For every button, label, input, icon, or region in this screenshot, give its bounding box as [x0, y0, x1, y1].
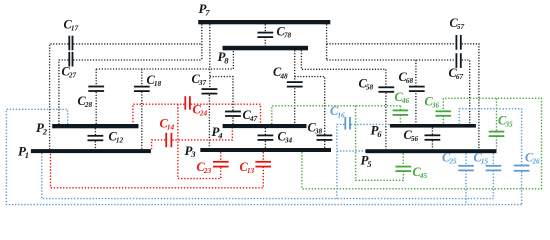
- capacitor C16: [344, 117, 351, 130]
- label P2: [36, 120, 48, 136]
- wire P2 branch down to C23 bottom: [178, 104, 221, 178]
- svg-text:P4: P4: [212, 124, 224, 140]
- wire C56 bottom: [431, 141, 433, 150]
- svg-text:C26: C26: [525, 150, 540, 165]
- label C17: [64, 18, 79, 33]
- label C26: [525, 150, 540, 165]
- BLUE WIRES: [6, 109, 521, 205]
- label C15: [474, 150, 489, 165]
- svg-text:P7: P7: [199, 1, 211, 17]
- wire C57 left line: [327, 43, 456, 45]
- capacitor C13: [255, 161, 271, 168]
- label C12: [109, 130, 124, 145]
- wire C16 left down to P1 line: [337, 124, 345, 198]
- wire C78 top: [264, 24, 266, 33]
- wire C12 bottom: [94, 141, 96, 149]
- label C23: [197, 160, 212, 175]
- capacitor C46: [393, 110, 409, 116]
- svg-text:C58: C58: [359, 77, 374, 92]
- plate P3: [200, 148, 331, 152]
- label C28: [78, 94, 93, 109]
- svg-text:C14: C14: [160, 117, 175, 132]
- label P1: [18, 144, 29, 160]
- label C14: [160, 117, 175, 132]
- svg-text:C38: C38: [308, 121, 323, 136]
- capacitor C67: [456, 53, 462, 68]
- wire C38 top route to C48 line: [295, 77, 325, 137]
- label C67: [449, 66, 464, 81]
- plate P5: [366, 149, 497, 153]
- label C38: [308, 121, 323, 136]
- capacitor C56: [425, 134, 441, 140]
- capacitor C57: [456, 35, 462, 50]
- capacitor C23: [213, 161, 229, 168]
- svg-text:C68: C68: [399, 70, 414, 85]
- wire C36 bottom to P6: [442, 116, 444, 124]
- wire P3 bottom to green box: [302, 98, 542, 189]
- label C18: [147, 73, 162, 88]
- svg-text:C56: C56: [404, 128, 419, 143]
- capacitor C25: [458, 165, 474, 171]
- svg-text:C13: C13: [240, 160, 255, 175]
- svg-text:C17: C17: [64, 18, 79, 33]
- wire C78 bottom: [264, 37, 266, 46]
- wire C46 top: [399, 106, 401, 111]
- wire C16 right to P6: [351, 123, 390, 125]
- capacitor C24: [184, 96, 190, 110]
- wire C17 right to P7 drop: [73, 43, 202, 45]
- wire C36 top: [442, 98, 444, 111]
- wire C37 bottom to P3: [208, 95, 210, 148]
- label C48: [273, 65, 288, 80]
- wire C68 bottom to P6: [415, 93, 417, 124]
- capacitor C47: [225, 111, 241, 117]
- svg-text:C37: C37: [192, 72, 207, 87]
- wire C24 left to P2: [133, 104, 185, 124]
- capacitor C27: [68, 52, 73, 67]
- capacitor C28: [88, 86, 104, 92]
- wire C24 right to P4: [191, 104, 261, 124]
- svg-text:C24: C24: [193, 103, 208, 118]
- wire C47 bottom to P4: [232, 118, 234, 125]
- wire C48 top to P8: [294, 50, 296, 83]
- label C13: [240, 160, 255, 175]
- label C45: [413, 165, 428, 180]
- label P8: [218, 49, 230, 65]
- wire C34 bottom: [264, 141, 266, 148]
- wire C15 top: [492, 153, 494, 166]
- capacitor C58: [378, 86, 394, 92]
- wire P2 top to blue ring: [6, 109, 521, 204]
- label P3: [185, 143, 197, 159]
- capacitor C26: [514, 165, 530, 172]
- label C57: [450, 16, 465, 31]
- plate P7: [198, 20, 330, 24]
- label C47: [243, 108, 258, 123]
- wire C13 bottom to P1: [51, 153, 264, 188]
- wire P7 stub down to C17/C27 lines: [201, 24, 203, 60]
- label C24: [193, 103, 208, 118]
- wire C18 bottom to P1: [141, 92, 143, 150]
- wire P4 net down to C45: [356, 106, 404, 181]
- label P6: [371, 122, 383, 138]
- label P5: [361, 153, 373, 169]
- svg-text:P5: P5: [361, 153, 373, 169]
- plate P6: [390, 124, 476, 128]
- svg-text:C18: C18: [147, 73, 162, 88]
- svg-text:C12: C12: [109, 130, 124, 145]
- wire C35 top: [496, 98, 498, 131]
- capacitor C18: [134, 86, 150, 92]
- svg-text:P2: P2: [36, 120, 48, 136]
- wire P7 down to C37: [209, 24, 211, 90]
- wire C14 left to P1: [152, 140, 166, 149]
- label C16: [330, 104, 345, 119]
- wire P7 right drop to C57/C67 lines: [326, 24, 328, 60]
- capacitor C48: [287, 81, 303, 87]
- plate P1: [31, 149, 151, 153]
- svg-text:C48: C48: [273, 65, 288, 80]
- label C25: [442, 150, 457, 165]
- wire branch to C47 top: [210, 77, 233, 113]
- svg-text:C57: C57: [450, 16, 465, 31]
- wire C26 top to P6: [459, 109, 521, 166]
- capacitor C35: [489, 131, 505, 137]
- wire C26 bottom to P2 line: [521, 172, 523, 205]
- wire P8 horizontal net y69: [96, 50, 233, 69]
- svg-text:C28: C28: [78, 94, 93, 109]
- label C58: [359, 77, 374, 92]
- wire C28 top: [95, 69, 97, 87]
- wire C28 bottom to P2: [95, 92, 97, 124]
- wire C58 bottom to P5: [385, 93, 387, 150]
- label C27: [62, 65, 77, 80]
- wire C35 bottom to P5: [496, 136, 498, 149]
- svg-text:C27: C27: [62, 65, 77, 80]
- wire C18 top: [141, 69, 143, 88]
- label C34: [278, 130, 293, 145]
- wire P8 to C58 top: [301, 50, 386, 88]
- svg-text:C45: C45: [413, 165, 428, 180]
- wire C38 bottom to P3: [324, 141, 326, 148]
- wire C13 top to P3: [262, 152, 264, 162]
- wire C68 top: [415, 60, 417, 88]
- wire C23 top to P3: [220, 152, 222, 162]
- plate P8: [223, 46, 309, 51]
- label C37: [192, 72, 207, 87]
- capacitor C14: [165, 133, 172, 147]
- capacitor C34: [258, 135, 274, 141]
- GREEN WIRES: [272, 98, 542, 189]
- wire C57 right to P5: [462, 44, 479, 149]
- BLACK WIRES: [50, 24, 479, 149]
- svg-text:C36: C36: [425, 95, 440, 110]
- wire C14 right to P4: [172, 128, 232, 140]
- svg-text:C16: C16: [330, 104, 345, 119]
- label C78: [277, 25, 292, 40]
- wire C46 bottom to P6: [399, 115, 401, 124]
- RED WIRES: [51, 104, 264, 188]
- wire C27 right: [73, 59, 202, 61]
- svg-text:P3: P3: [185, 143, 197, 159]
- label C68: [399, 70, 414, 85]
- label C56: [404, 128, 419, 143]
- wire C34 top: [264, 128, 266, 136]
- label C36: [425, 95, 440, 110]
- svg-text:C78: C78: [277, 25, 292, 40]
- capacitor C78: [257, 32, 273, 38]
- wire C67 right to P6: [462, 60, 470, 124]
- wire C67 left line: [327, 59, 456, 61]
- svg-text:C47: C47: [243, 108, 258, 123]
- wire C48 bottom to P4: [294, 88, 296, 124]
- svg-text:P8: P8: [218, 49, 230, 65]
- capacitor C38: [317, 135, 333, 141]
- capacitor C37: [202, 88, 218, 94]
- label P7: [199, 1, 211, 17]
- capacitor C45: [396, 166, 412, 172]
- label P4: [212, 124, 224, 140]
- capacitor C17: [68, 36, 73, 51]
- wire C15 bottom to P1 line: [492, 170, 494, 198]
- capacitor C15: [486, 165, 502, 171]
- wire C25 bottom to P2 line: [465, 170, 467, 204]
- svg-text:C34: C34: [278, 130, 293, 145]
- wire C56 top: [431, 128, 433, 137]
- svg-text:C46: C46: [395, 90, 410, 105]
- plate P4: [223, 124, 307, 128]
- capacitor C36: [436, 110, 452, 116]
- capacitor C68: [409, 86, 425, 92]
- label C46: [395, 90, 410, 105]
- svg-text:C23: C23: [197, 160, 212, 175]
- plate P2: [52, 124, 138, 128]
- wire C25 top: [465, 153, 467, 166]
- svg-text:P1: P1: [18, 144, 29, 160]
- wire C27 left to P2: [59, 60, 69, 124]
- svg-text:C35: C35: [498, 114, 513, 129]
- wire C17 left to P1: [50, 44, 69, 149]
- wire C12 top: [94, 128, 96, 136]
- wire P4 up to green net: [272, 106, 401, 124]
- capacitor C12: [88, 135, 104, 141]
- wire P1 bottom blue line: [42, 153, 494, 198]
- label C35: [498, 114, 513, 129]
- wire C45 top to P5: [402, 153, 404, 166]
- wire branch to P5 left end: [337, 150, 366, 152]
- svg-text:C67: C67: [449, 66, 464, 81]
